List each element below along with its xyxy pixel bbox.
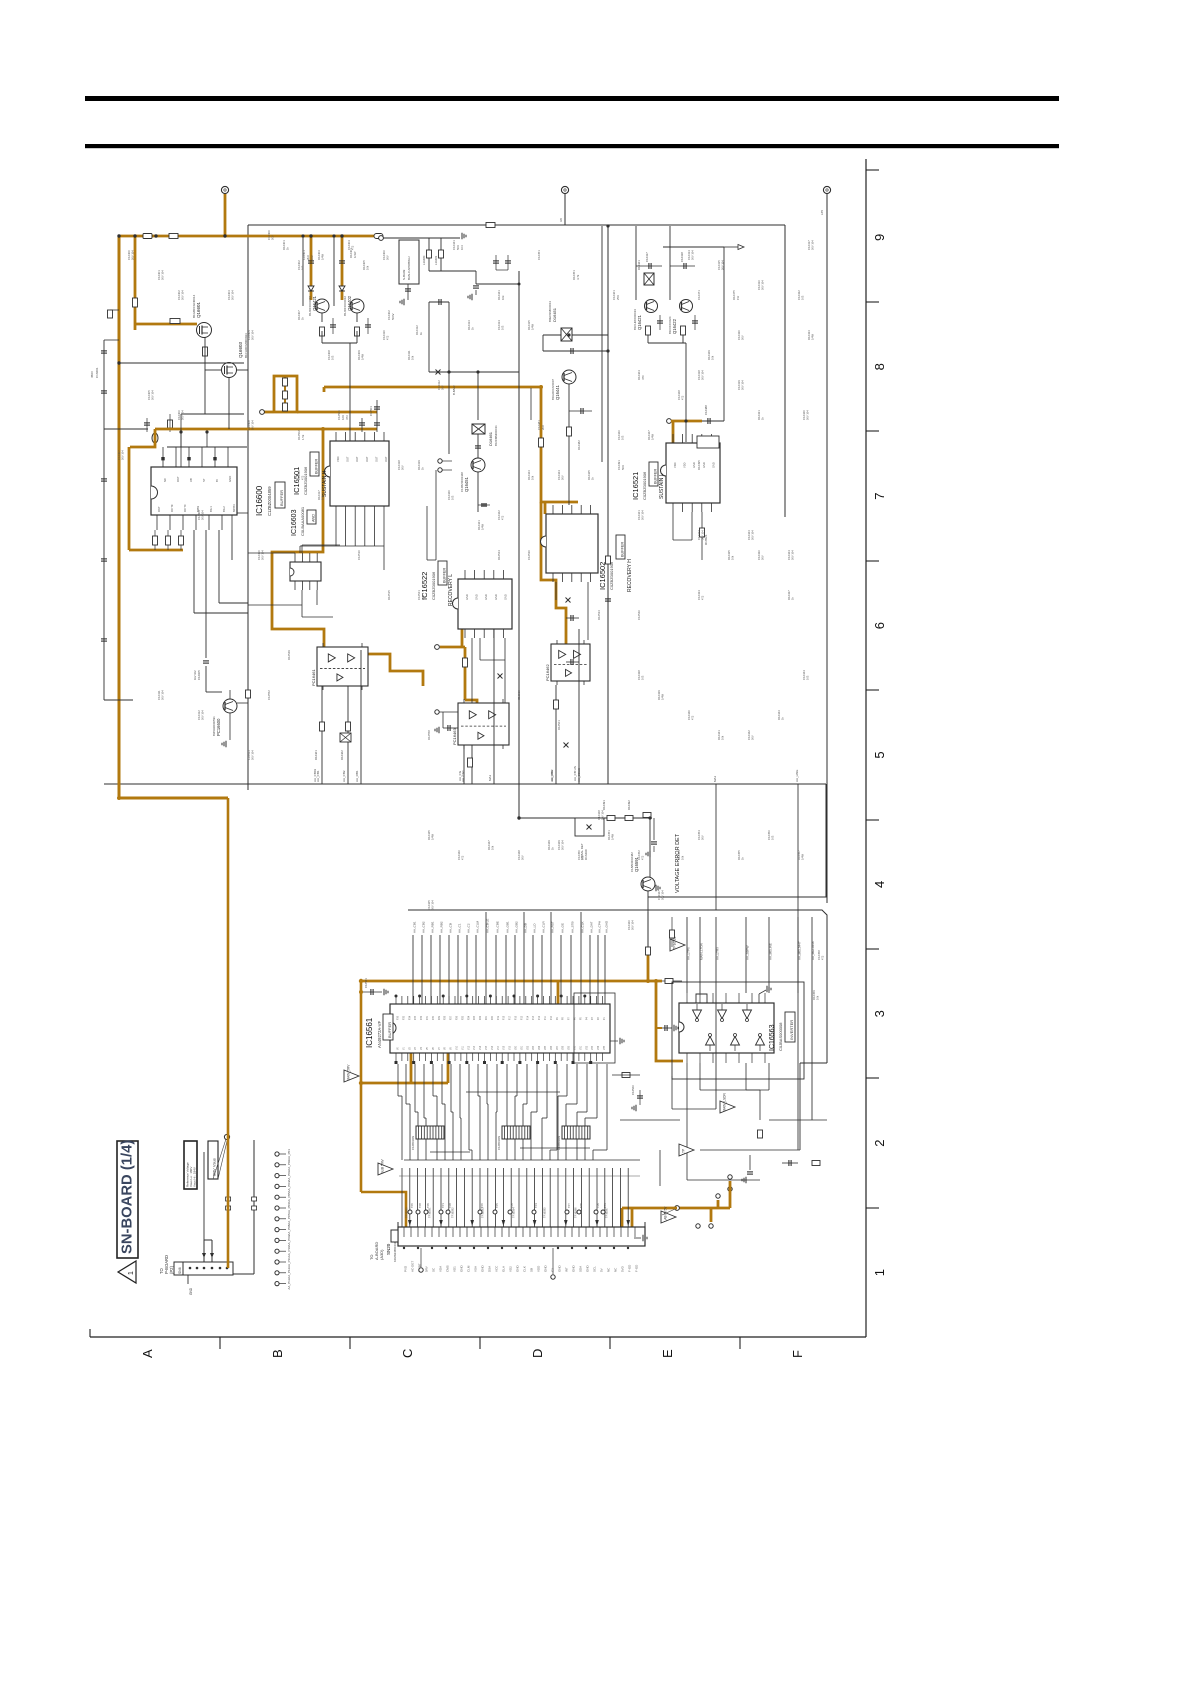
wire PC16461 outputs	[321, 686, 323, 784]
svg-text:3: 3	[872, 1010, 887, 1017]
diode D16461	[472, 424, 485, 434]
svg-text:1/4W: 1/4W	[321, 253, 325, 260]
svg-text:472: 472	[701, 595, 705, 600]
svg-text:P23: P23	[474, 1015, 476, 1020]
svg-text:GND: GND	[475, 594, 479, 600]
svg-text:2: 2	[872, 1140, 887, 1147]
wire lower border and right drop	[408, 910, 827, 1063]
capacitor C16488	[707, 418, 709, 424]
svg-text:MA1: MA1	[713, 776, 717, 783]
wire orange jumper tail	[264, 411, 274, 414]
svg-text:OUT: OUT	[384, 456, 388, 462]
wire orange 5RV drop	[227, 798, 230, 1268]
svg-text:PC16461: PC16461	[311, 669, 316, 686]
wire IC16501 top caps	[374, 422, 380, 424]
svg-text:50V 104: 50V 104	[761, 280, 765, 290]
svg-text:IC16521: IC16521	[631, 472, 640, 500]
svg-text:P22: P22	[480, 1015, 482, 1020]
wire Q16591 collector riser	[647, 912, 649, 947]
wire IC16600 top bus	[167, 446, 247, 448]
svg-text:C16415: C16415	[717, 260, 721, 270]
svg-text:V22: V22	[527, 1045, 529, 1050]
svg-text:B: B	[270, 1349, 285, 1358]
svg-text:SUSTAIN H: SUSTAIN H	[322, 470, 328, 497]
svg-text:C16440: C16440	[687, 710, 691, 720]
test point circles row	[408, 1210, 412, 1214]
svg-text:R16482: R16482	[577, 440, 581, 450]
svg-text:AND: AND	[312, 514, 316, 522]
svg-text:1/4W: 1/4W	[361, 353, 365, 360]
connector terminal J2 top middle	[561, 186, 568, 193]
svg-text:D16451: D16451	[552, 307, 557, 322]
svg-text:50V: 50V	[441, 385, 445, 390]
wire orange drop to IC16502	[541, 387, 578, 502]
svg-text:B0JCMM000011: B0JCMM000011	[494, 425, 498, 446]
capacitor C16421 row	[636, 265, 662, 267]
svg-text:AA_DAT: AA_DAT	[590, 921, 594, 933]
svg-text:BUFFER: BUFFER	[315, 459, 319, 474]
svg-text:AA_CB: AA_CB	[449, 923, 453, 933]
svg-text:GND: GND	[558, 1265, 562, 1273]
wire orange left drop to flag	[360, 981, 363, 1192]
svg-text:TP7: TP7	[567, 1203, 571, 1208]
svg-text:C16418: C16418	[397, 460, 401, 470]
svg-text:C16B01RN: C16B01RN	[497, 1136, 501, 1150]
svg-text:PC16462: PC16462	[545, 664, 550, 681]
svg-text:50V 104: 50V 104	[161, 690, 165, 700]
svg-text:B1CHRC000034: B1CHRC000034	[633, 309, 637, 330]
svg-text:CLM: CLM	[467, 1265, 471, 1272]
resistor R16604 stub	[110, 309, 119, 311]
svg-text:TP3: TP3	[603, 1203, 607, 1208]
wire orange IC16600 left hook	[130, 429, 155, 447]
svg-text:50V 104: 50V 104	[251, 420, 255, 430]
svg-text:P25: P25	[462, 1015, 464, 1020]
wire IC16600 pin right stub	[237, 512, 248, 514]
wire orange IC16502 staircase	[541, 502, 566, 644]
IC16561 right sub box	[574, 993, 615, 1063]
svg-text:CMS: CMS	[446, 1265, 450, 1272]
svg-text:C16561: C16561	[364, 978, 368, 988]
svg-text:102: 102	[310, 255, 314, 260]
svg-text:LTP: LTP	[682, 1149, 686, 1155]
svg-text:AA_P01: AA_P01	[287, 1149, 291, 1160]
svg-text:V29: V29	[569, 1045, 571, 1050]
svg-text:B-BA02: B-BA02	[452, 385, 456, 395]
transistor Q16422	[680, 300, 693, 313]
svg-text:10k: 10k	[411, 355, 415, 360]
svg-text:R16451: R16451	[607, 830, 611, 840]
svg-text:L16480: L16480	[422, 255, 426, 265]
svg-text:C16417: C16417	[645, 252, 649, 262]
svg-text:C0JBAS000008: C0JBAS000008	[778, 1022, 783, 1051]
svg-text:R16407: R16407	[297, 310, 301, 320]
wire orange branch x135	[134, 236, 137, 330]
opto-coupler PC16463	[458, 703, 509, 745]
svg-text:R16461: R16461	[314, 750, 318, 760]
logic IC16563 body	[679, 1003, 774, 1053]
logic IC16603 body	[290, 562, 321, 581]
svg-text:C: C	[400, 1349, 415, 1358]
svg-text:V13: V13	[474, 1045, 476, 1050]
voltage error det box edge	[648, 784, 826, 897]
svg-text:TP16580: TP16580	[405, 1207, 409, 1218]
svg-text:AA_P03: AA_P03	[287, 1170, 291, 1181]
svg-text:450V: 450V	[90, 371, 94, 378]
svg-text:BIL1: BIL1	[209, 506, 213, 512]
svg-text:C16430: C16430	[737, 330, 741, 340]
svg-text:C16424: C16424	[557, 470, 561, 480]
IC16521 aux box	[697, 436, 719, 448]
wire bus y363	[119, 362, 244, 364]
svg-text:AA_MEL0448: AA_MEL0448	[811, 941, 815, 960]
svg-text:C16417: C16417	[807, 240, 811, 250]
wire ground bus to P2	[253, 1140, 255, 1274]
svg-text:R16413: R16413	[467, 320, 471, 330]
transistor PC16600	[223, 699, 237, 713]
svg-text:V14: V14	[480, 1045, 482, 1050]
svg-text:P28: P28	[445, 1015, 447, 1020]
wire orange elbow to 5RV	[119, 797, 228, 800]
resistor network RN16561	[416, 1126, 444, 1139]
svg-text:C16458: C16458	[817, 950, 821, 960]
svg-text:L16481: L16481	[434, 255, 438, 265]
svg-text:VD2: VD2	[509, 1266, 513, 1272]
svg-text:50V 104: 50V 104	[251, 750, 255, 760]
wire orange bus y432	[155, 428, 377, 431]
svg-text:P29: P29	[439, 1015, 441, 1020]
svg-text:R16455: R16455	[737, 850, 741, 860]
ground top middle	[461, 233, 463, 239]
svg-text:SCL: SCL	[593, 1266, 597, 1272]
svg-text:RECOVERY H: RECOVERY H	[627, 559, 633, 592]
op-amp IC16600 body	[151, 467, 237, 515]
svg-text:AA_P06: AA_P06	[287, 1203, 291, 1214]
svg-text:C16400: C16400	[127, 250, 131, 260]
svg-text:OUT: OUT	[346, 456, 350, 462]
svg-text:R16561: R16561	[557, 720, 561, 730]
svg-text:C16419: C16419	[737, 380, 741, 390]
svg-text:C16471: C16471	[697, 290, 701, 300]
svg-text:50V: 50V	[386, 255, 390, 260]
svg-text:R16423: R16423	[527, 470, 531, 480]
resistor R16601 on branch	[133, 298, 138, 307]
svg-text:50V 104: 50V 104	[601, 810, 605, 820]
svg-text:P15: P15	[521, 1015, 523, 1020]
svg-text:AA_CBUS: AA_CBUS	[577, 768, 581, 782]
svg-text:P34: P34	[409, 1015, 411, 1020]
wire mid section vertical x608	[607, 227, 609, 784]
svg-text:S-BA09: S-BA09	[402, 269, 406, 280]
svg-text:R16558: R16558	[427, 730, 431, 740]
wire orange IC16563 vcc	[648, 980, 662, 983]
svg-text:C16405: C16405	[147, 390, 151, 400]
svg-text:C16425: C16425	[427, 900, 431, 910]
svg-text:TP16587: TP16587	[605, 1207, 609, 1218]
capacitor C16491	[653, 818, 655, 840]
svg-text:R16447: R16447	[487, 840, 491, 850]
ground IC16563 top	[758, 994, 760, 1003]
extra caps top middle	[486, 223, 495, 228]
IC16563 inverters	[693, 1010, 702, 1019]
svg-text:103: 103	[331, 355, 335, 360]
wire IC16502 lower pins	[555, 582, 557, 600]
choke L16480 pair	[428, 238, 430, 271]
svg-text:E: E	[660, 1349, 675, 1358]
resistor R16602	[170, 319, 180, 324]
arrow net A	[724, 246, 738, 248]
svg-text:F-GD: F-GD	[628, 1264, 632, 1272]
svg-text:50V 104: 50V 104	[806, 410, 810, 420]
svg-text:C16448: C16448	[517, 850, 521, 860]
svg-text:25V: 25V	[616, 295, 620, 300]
svg-text:TP5: TP5	[495, 1203, 499, 1208]
leader 5RV Vsus	[213, 1139, 226, 1179]
svg-text:472: 472	[821, 955, 825, 960]
svg-text:C16412: C16412	[437, 380, 441, 390]
svg-text:C0ZBZ0001906: C0ZBZ0001906	[609, 561, 614, 590]
wire orange loop to bus	[310, 370, 325, 388]
wire zener row y372	[429, 371, 519, 373]
svg-text:SB: SB	[530, 1268, 534, 1272]
svg-text:B3PAA0000591: B3PAA0000591	[212, 716, 216, 736]
svg-text:Q16601: Q16601	[196, 301, 201, 318]
svg-text:(P2): (P2)	[169, 1265, 174, 1274]
svg-text:473: 473	[345, 415, 349, 420]
svg-text:103: 103	[501, 325, 505, 330]
jumper J16001 on 5RV line	[226, 1197, 231, 1201]
transistor Q16402	[350, 299, 364, 313]
svg-text:50V 104: 50V 104	[631, 920, 635, 930]
wire left section vertical	[247, 225, 249, 790]
svg-text:R16439: R16439	[657, 690, 661, 700]
transistor Q16591	[649, 818, 651, 877]
svg-text:R16457: R16457	[797, 850, 801, 860]
svg-text:B1JDCF000015: B1JDCF000015	[308, 296, 312, 316]
svg-text:P26: P26	[457, 1015, 459, 1020]
svg-text:B1GBCFGN0014: B1GBCFGN0014	[192, 294, 196, 318]
junction dots bottom	[646, 979, 650, 983]
svg-text:C16450: C16450	[577, 850, 581, 860]
svg-text:6: 6	[872, 622, 887, 629]
svg-text:SUSTAIN L: SUSTAIN L	[659, 473, 665, 499]
svg-text:50V 104: 50V 104	[231, 290, 235, 300]
svg-text:1/4W: 1/4W	[811, 333, 815, 340]
wire IC16522 lower pins	[471, 638, 473, 703]
ground SN20 right	[634, 1237, 641, 1239]
svg-text:GND: GND	[572, 1265, 576, 1273]
capacitor C16561 top left	[361, 991, 382, 993]
flag MAIN_5RV	[344, 1070, 359, 1082]
svg-text:C16444: C16444	[802, 670, 806, 680]
leader SN20 aux	[662, 1209, 675, 1215]
svg-text:50V 104: 50V 104	[251, 330, 255, 340]
svg-text:50V 104: 50V 104	[201, 710, 205, 720]
svg-text:25V: 25V	[421, 595, 425, 600]
svg-text:IC16563: IC16563	[769, 1024, 776, 1051]
title box SN-BOARD (1/4)	[117, 1141, 138, 1258]
svg-text:10k: 10k	[321, 495, 325, 500]
svg-text:AA_P05: AA_P05	[287, 1192, 291, 1203]
resistor R16606	[168, 420, 173, 428]
wire x519 long vertical	[518, 271, 520, 818]
svg-text:C16566: C16566	[631, 1085, 635, 1095]
svg-text:GND: GND	[586, 1265, 590, 1273]
wire orange sustain bus y388	[324, 386, 541, 389]
IC16600 pins top	[162, 447, 164, 467]
diode D16422 marks	[308, 286, 314, 291]
svg-text:1kV 102: 1kV 102	[193, 670, 197, 680]
svg-text:K1MN34B00010: K1MN34B00010	[393, 1241, 397, 1262]
svg-text:10k: 10k	[731, 555, 735, 560]
svg-text:IC16603: IC16603	[291, 509, 298, 536]
svg-text:SUB 5%V: SUB 5%V	[381, 1158, 385, 1173]
svg-text:PC16600: PC16600	[216, 718, 221, 736]
svg-text:P14: P14	[527, 1015, 529, 1020]
svg-text:P32: P32	[421, 1015, 423, 1020]
svg-text:1/4W: 1/4W	[651, 433, 655, 440]
connector terminal J3 top right	[823, 186, 830, 193]
svg-text:V18: V18	[504, 1045, 506, 1050]
svg-text:C1AB00002482: C1AB00002482	[630, 852, 634, 872]
svg-text:AA_C2: AA_C2	[467, 923, 471, 933]
svg-text:C16407: C16407	[117, 450, 121, 460]
svg-text:CLK: CLK	[523, 1266, 527, 1272]
svg-text:V19: V19	[510, 1045, 512, 1050]
svg-text:5RV Vsus: 5RV Vsus	[212, 1158, 217, 1176]
svg-text:MAIN_5RV: MAIN_5RV	[347, 1064, 351, 1081]
wire mid drop x449	[448, 372, 450, 454]
svg-text:AA_RB2: AA_RB2	[440, 921, 444, 933]
svg-text:AC-DET: AC-DET	[411, 1261, 415, 1272]
svg-text:GND: GND	[481, 1265, 485, 1273]
svg-text:TP6: TP6	[426, 1203, 430, 1208]
svg-text:P33: P33	[415, 1015, 417, 1020]
capacitor C16593 cluster	[749, 1155, 751, 1170]
svg-text:C16402: C16402	[297, 260, 301, 270]
wire net 5RV Vsus vertical	[203, 1152, 205, 1240]
svg-text:VOLTAGE ERROR DET: VOLTAGE ERROR DET	[675, 833, 681, 893]
svg-text:R16405: R16405	[362, 260, 366, 270]
svg-text:R16524: R16524	[497, 550, 501, 560]
svg-text:50V 104: 50V 104	[721, 260, 725, 270]
svg-text:10k: 10k	[711, 355, 715, 360]
wire IC16521 bottom pins	[672, 512, 674, 540]
wire fan long risers	[485, 912, 487, 935]
wire orange PC16461 link	[368, 654, 423, 686]
svg-text:MAIN_LSDN: MAIN_LSDN	[723, 1093, 727, 1112]
svg-text:2kV: 2kV	[541, 425, 545, 430]
svg-text:R16445: R16445	[427, 830, 431, 840]
svg-text:1/4W: 1/4W	[531, 323, 535, 330]
svg-text:C16412: C16412	[197, 710, 201, 720]
svg-text:DSA: DSA	[488, 1266, 492, 1272]
svg-text:TP16581: TP16581	[428, 1207, 432, 1218]
wire IC16561 bottom mesh	[397, 1064, 399, 1096]
connector SN20 body	[398, 1227, 645, 1246]
svg-text:Q16603: Q16603	[238, 341, 243, 358]
wire orange J1 stem	[224, 194, 227, 236]
svg-text:BIL2: BIL2	[222, 506, 226, 512]
svg-text:Q16421: Q16421	[312, 295, 317, 311]
resistor R16603	[203, 347, 208, 356]
capacitor C16605	[203, 660, 209, 662]
svg-text:472: 472	[461, 855, 465, 860]
svg-text:OKT: OKT	[176, 476, 180, 482]
svg-text:R16533: R16533	[597, 610, 601, 620]
svg-text:TP0: TP0	[510, 1203, 514, 1208]
svg-text:C16402: C16402	[177, 290, 181, 300]
svg-text:AA_RB3: AA_RB3	[550, 770, 554, 782]
transistor Q16603	[222, 363, 237, 378]
svg-text:PXD: PXD	[404, 1265, 408, 1272]
svg-text:470: 470	[641, 375, 645, 380]
svg-text:GND: GND	[189, 1287, 193, 1295]
capacitor C16604 column	[103, 340, 105, 700]
svg-text:C16423: C16423	[747, 530, 751, 540]
wire orange left rail	[118, 235, 121, 798]
svg-text:R16437: R16437	[787, 590, 791, 600]
svg-text:472: 472	[691, 715, 695, 720]
svg-text:472: 472	[301, 475, 305, 480]
svg-text:V23: V23	[533, 1045, 535, 1050]
page rule top 2	[85, 144, 1059, 148]
svg-text:50V: 50V	[701, 835, 705, 840]
svg-text:Vsus Hi : 184V: Vsus Hi : 184V	[193, 1167, 197, 1187]
svg-text:C16454: C16454	[697, 830, 701, 840]
svg-text:TP4: TP4	[534, 1203, 538, 1208]
svg-text:BUFFER: BUFFER	[654, 469, 658, 484]
svg-text:V10: V10	[457, 1045, 459, 1050]
capacitor C16608	[405, 288, 411, 290]
svg-text:1/4W: 1/4W	[481, 523, 485, 530]
svg-text:(A3D): (A3D)	[379, 1249, 384, 1260]
svg-text:P18: P18	[504, 1015, 506, 1020]
wire right section vertical x785	[784, 225, 786, 517]
wire IC16603 bottom wires	[301, 590, 303, 617]
svg-text:50V: 50V	[621, 465, 625, 470]
svg-text:V31: V31	[580, 1045, 582, 1050]
svg-text:P19: P19	[498, 1015, 500, 1020]
svg-text:AA_MELINE: AA_MELINE	[769, 943, 773, 960]
wire P2 pin3-4 loop	[203, 1240, 205, 1262]
resistor R16600 inline	[169, 234, 178, 239]
svg-text:P30: P30	[433, 1015, 435, 1020]
svg-text:C16601: C16601	[95, 367, 99, 378]
svg-text:C16429: C16429	[557, 840, 561, 850]
svg-text:1.5k: 1.5k	[301, 434, 305, 440]
svg-text:IC16600: IC16600	[255, 485, 264, 516]
svg-text:AA_OB1: AA_OB1	[506, 921, 510, 933]
svg-text:R16521: R16521	[704, 534, 708, 545]
resistor R16521	[700, 528, 705, 537]
svg-text:4: 4	[872, 881, 887, 888]
svg-text:TP16586: TP16586	[574, 1207, 578, 1218]
wire orange IC16521 feed	[667, 419, 672, 424]
wire D16461 chain	[477, 372, 479, 420]
svg-text:GND: GND	[503, 594, 507, 600]
border ruler right	[865, 159, 867, 1337]
zener D16491 box	[575, 818, 604, 836]
IC16561 top pins	[395, 996, 397, 1004]
svg-text:50V 104: 50V 104	[181, 290, 185, 300]
svg-text:C16B01RN: C16B01RN	[557, 1136, 561, 1150]
svg-text:C16488: C16488	[704, 405, 708, 415]
svg-text:U8: U8	[559, 218, 563, 222]
svg-text:V30: V30	[575, 1045, 577, 1050]
svg-text:AA_P04: AA_P04	[287, 1181, 291, 1192]
svg-text:C16414: C16414	[497, 320, 501, 330]
